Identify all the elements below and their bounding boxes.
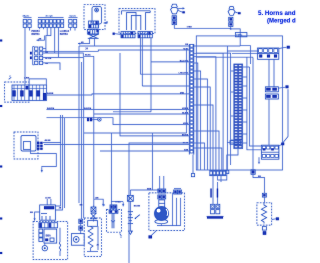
wire xyxy=(55,115,62,210)
switch connector lower xyxy=(88,30,99,35)
terminal xyxy=(226,170,229,173)
wire xyxy=(283,89,288,142)
strip stubs xyxy=(231,67,250,143)
title line 2 xyxy=(267,19,296,25)
wire xyxy=(129,201,131,226)
dashed box ignition switch xyxy=(84,5,105,30)
svg-text:4Apdx: 4Apdx xyxy=(23,14,30,17)
wire xyxy=(29,79,46,85)
wire xyxy=(94,113,190,115)
designator 3 xyxy=(120,234,123,240)
label 1RBA xyxy=(115,200,121,203)
horn arrow xyxy=(178,7,185,13)
svg-text:LHB.4TB4: LHB.4TB4 xyxy=(179,72,189,75)
wire xyxy=(231,29,241,46)
dashed box resistor R3 xyxy=(84,218,101,256)
arrow xyxy=(279,46,290,49)
wire xyxy=(252,58,254,170)
resistor element xyxy=(88,221,98,252)
switch symbol xyxy=(95,8,99,12)
connector X1 end xyxy=(191,174,194,177)
label 4JB8 xyxy=(24,77,30,80)
svg-text:(Merged d: (Merged d xyxy=(267,19,296,25)
arrow xyxy=(122,202,124,206)
wire xyxy=(57,28,59,58)
bus wire xyxy=(79,45,240,47)
svg-text:14B: 14B xyxy=(95,196,99,199)
connector block X4 xyxy=(258,48,279,59)
ground arrow xyxy=(258,157,260,164)
wire xyxy=(264,197,266,203)
connector strip X1 xyxy=(189,44,194,155)
key switch body xyxy=(21,136,36,152)
battery plates xyxy=(128,212,133,224)
bus wire xyxy=(43,57,84,59)
wire xyxy=(44,143,189,145)
wire xyxy=(83,58,85,219)
relay connector left xyxy=(121,32,135,38)
starter connector xyxy=(39,223,58,228)
wire xyxy=(160,176,164,189)
wire xyxy=(54,28,56,53)
wire xyxy=(268,99,270,145)
wire xyxy=(47,199,51,205)
connector row X2 xyxy=(209,171,226,176)
wire xyxy=(81,62,83,219)
ground arrow xyxy=(128,227,132,235)
connector label xyxy=(46,14,54,17)
wire xyxy=(194,79,208,170)
wire xyxy=(43,63,60,70)
svg-text:5pndx: 5pndx xyxy=(70,15,77,17)
wire xyxy=(142,85,189,87)
svg-text:BLA.TB4: BLA.TB4 xyxy=(180,59,189,62)
ground arrow xyxy=(41,168,43,173)
wire 24 xyxy=(78,38,90,50)
wire xyxy=(139,38,141,74)
label BB.BB xyxy=(134,206,141,208)
connector xyxy=(251,170,255,175)
switch connector xyxy=(89,21,99,28)
svg-text:BMTB4: BMTB4 xyxy=(32,33,41,36)
wire xyxy=(217,182,219,204)
title line 1 xyxy=(258,10,296,17)
wire xyxy=(230,26,232,29)
connector label CLBY xyxy=(230,141,241,145)
resistor terminal xyxy=(262,193,266,197)
switch body xyxy=(92,7,102,25)
svg-text:4RB4: 4RB4 xyxy=(183,122,189,125)
junction xyxy=(230,28,232,30)
relay connector X5 xyxy=(261,145,279,159)
ground tab xyxy=(149,231,157,239)
svg-text:BBB: BBB xyxy=(147,188,152,190)
starter terminals xyxy=(39,229,43,241)
distributor body xyxy=(155,207,169,221)
relay connector right xyxy=(138,32,152,38)
lamp terminal xyxy=(110,205,117,209)
arrow A xyxy=(104,20,109,24)
wire xyxy=(87,251,98,253)
fuse grid F xyxy=(30,47,43,65)
connector block B xyxy=(38,17,64,28)
fuse link xyxy=(79,226,83,230)
wire 14B xyxy=(94,196,103,204)
fuse block 1 xyxy=(12,85,29,101)
wire xyxy=(268,59,270,87)
resistor terminal xyxy=(262,227,266,235)
fuse block 2 xyxy=(29,85,47,101)
svg-text:5. Horns and: 5. Horns and xyxy=(258,10,296,17)
svg-text:4B.BB: 4B.BB xyxy=(45,139,52,142)
wire xyxy=(194,131,219,171)
arrow xyxy=(102,203,105,207)
fuse link xyxy=(79,219,83,223)
enclosure box xyxy=(129,143,205,263)
svg-text:43.8B: 43.8B xyxy=(45,196,51,199)
connector block X4b xyxy=(265,87,278,99)
label BB xyxy=(45,63,48,65)
starter motor xyxy=(42,243,47,251)
connector label xyxy=(70,15,77,17)
edge tick xyxy=(0,105,2,107)
dashed box relay unit xyxy=(119,9,155,34)
wire xyxy=(113,111,151,113)
svg-text:4e rath: 4e rath xyxy=(46,14,54,17)
wire BB xyxy=(253,174,265,193)
label 4B.BB xyxy=(45,139,52,142)
horn H2 xyxy=(228,7,235,16)
svg-text:1RBA: 1RBA xyxy=(115,200,121,203)
wire xyxy=(196,56,253,58)
wire xyxy=(194,148,222,171)
wire xyxy=(111,201,123,203)
svg-text:4RB: 4RB xyxy=(180,91,185,94)
wire label xyxy=(210,189,218,198)
wire xyxy=(151,133,153,190)
wire xyxy=(44,36,46,41)
relay coils xyxy=(122,11,151,30)
edge tick xyxy=(0,40,2,42)
wire xyxy=(230,53,232,165)
wire xyxy=(250,67,262,146)
wire xyxy=(157,224,181,226)
resistor R4 xyxy=(261,203,266,224)
label BB xyxy=(30,212,33,214)
wire arrow 4B xyxy=(37,37,45,41)
lamp holder xyxy=(109,210,118,213)
wire xyxy=(194,87,210,171)
svg-text:4B: 4B xyxy=(39,37,42,40)
wire xyxy=(194,105,213,204)
starter lead xyxy=(59,228,60,256)
wire xyxy=(227,141,230,143)
svg-text:BMTB4: BMTB4 xyxy=(60,33,69,36)
connector xyxy=(174,189,182,195)
label LAURA4 xyxy=(60,30,70,36)
horn H1 xyxy=(171,4,179,14)
wire xyxy=(194,57,216,170)
dashed box starter xyxy=(33,221,68,259)
arrow xyxy=(279,143,284,146)
connector label xyxy=(23,14,30,17)
wire xyxy=(186,48,188,133)
connector box xyxy=(127,195,133,201)
spark connector xyxy=(211,204,215,214)
starter solenoid xyxy=(44,229,57,243)
main enclosure box xyxy=(196,36,282,170)
svg-text:BA/BB: BA/BB xyxy=(47,92,54,95)
arrow xyxy=(278,85,288,88)
coil upper xyxy=(91,207,96,212)
svg-text:LAURA4: LAURA4 xyxy=(60,30,70,33)
wire xyxy=(273,59,275,87)
wire xyxy=(141,38,143,86)
wire xyxy=(84,132,187,134)
wire xyxy=(226,46,228,170)
svg-text:CLBY: CLBY xyxy=(231,143,237,145)
wire xyxy=(55,115,60,206)
wire xyxy=(232,52,259,54)
label xyxy=(59,206,62,209)
wire xyxy=(194,53,223,170)
wire xyxy=(92,205,94,222)
horn 2 terminal xyxy=(229,23,233,27)
wire xyxy=(100,150,189,152)
wire xyxy=(150,38,152,112)
svg-text:17B8: 17B8 xyxy=(187,27,193,29)
strip wire labels xyxy=(179,44,189,151)
switch contact xyxy=(88,35,99,39)
wire BA/BB xyxy=(47,92,93,95)
horn terminal xyxy=(172,21,176,25)
wire xyxy=(46,28,51,53)
wire xyxy=(64,118,66,208)
wire xyxy=(176,198,178,226)
dashed box distributor xyxy=(149,193,185,231)
spark connector xyxy=(216,204,220,214)
wire 28 xyxy=(97,226,100,250)
wire xyxy=(35,212,40,217)
spark label xyxy=(207,216,224,218)
wire xyxy=(180,198,182,226)
wire xyxy=(78,46,80,203)
edge tick xyxy=(0,252,2,254)
wire xyxy=(43,50,190,51)
wire xyxy=(196,52,230,54)
lamp filament xyxy=(111,213,115,228)
label BB xyxy=(45,52,48,54)
wire xyxy=(192,155,194,174)
wire xyxy=(42,28,44,30)
label BB xyxy=(80,205,83,207)
distributor base xyxy=(155,220,168,224)
wire xyxy=(31,150,57,168)
horn terminal xyxy=(172,16,176,20)
wire xyxy=(110,133,112,205)
horn 2 terminal xyxy=(229,17,233,21)
wire xyxy=(227,50,258,52)
svg-text:BAURA: BAURA xyxy=(47,107,55,110)
wire xyxy=(43,142,61,144)
connector block C xyxy=(69,18,78,31)
dashed box key switch xyxy=(14,132,38,159)
svg-text:BBA: BBA xyxy=(46,235,51,238)
wire xyxy=(194,71,201,170)
arrow xyxy=(272,217,279,220)
svg-text:BB.BB: BB.BB xyxy=(134,206,141,208)
fuse box designator xyxy=(9,76,12,79)
wire xyxy=(220,176,222,182)
edge tick xyxy=(0,218,2,220)
label PMCB4 xyxy=(32,30,41,36)
wire xyxy=(172,193,174,226)
dashed box fusebox xyxy=(5,82,30,102)
label BLBA xyxy=(45,57,52,60)
connector xyxy=(158,195,166,199)
label 43.8B xyxy=(45,196,51,199)
switch symbol xyxy=(135,215,140,219)
wire xyxy=(218,149,238,181)
wire xyxy=(129,190,131,195)
wire xyxy=(92,91,189,95)
wire xyxy=(94,38,96,46)
svg-text:4RB/B: 4RB/B xyxy=(182,107,189,110)
wire xyxy=(151,61,189,63)
label BLBA xyxy=(85,54,91,57)
wire xyxy=(120,53,189,136)
svg-text:74.B4: 74.B4 xyxy=(183,47,189,50)
wire xyxy=(140,73,189,75)
wire xyxy=(93,56,95,207)
wire xyxy=(80,223,82,233)
wire xyxy=(43,48,46,50)
dashed box lamp xyxy=(107,209,122,232)
dashed box ballast resistor xyxy=(257,203,272,225)
connector strip X3 xyxy=(234,64,243,149)
key switch connector xyxy=(37,142,43,150)
edge tick xyxy=(0,166,2,168)
wire 17B8 xyxy=(174,25,230,29)
arrow B xyxy=(113,33,121,35)
wire xyxy=(46,28,48,36)
relay R2 xyxy=(40,205,56,220)
svg-text:PMCB4: PMCB4 xyxy=(32,30,41,33)
connector xyxy=(158,189,166,193)
sensor xyxy=(87,118,101,122)
wire xyxy=(39,28,41,30)
coil lower xyxy=(91,213,97,219)
wire BBB xyxy=(130,188,159,190)
horn 2 arrow xyxy=(235,12,241,14)
wire xyxy=(247,58,262,150)
bus wire xyxy=(43,53,94,56)
connector block A xyxy=(23,18,31,31)
wire xyxy=(194,63,198,170)
motor M xyxy=(71,234,84,246)
distributor neck xyxy=(159,200,165,207)
wire xyxy=(24,31,26,86)
svg-text:BLBA: BLBA xyxy=(85,54,91,57)
connector C289 xyxy=(235,33,247,38)
svg-text:BAURA: BAURA xyxy=(84,107,92,110)
wire BAURA xyxy=(47,107,190,110)
wire xyxy=(47,118,190,125)
ground arrow xyxy=(34,217,36,221)
wire xyxy=(240,46,250,64)
